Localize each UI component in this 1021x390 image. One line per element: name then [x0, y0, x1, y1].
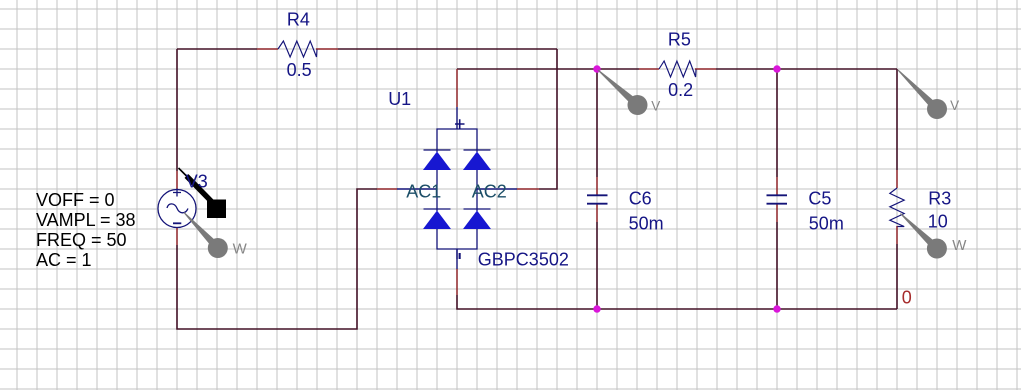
- svg-text:V: V: [950, 98, 959, 113]
- svg-text:VAMPL = 38: VAMPL = 38: [36, 210, 136, 230]
- svg-text:0.5: 0.5: [287, 60, 312, 80]
- svg-text:R3: R3: [928, 189, 951, 209]
- svg-text:0: 0: [902, 288, 912, 308]
- svg-text:AC1: AC1: [406, 181, 441, 201]
- svg-text:FREQ = 50: FREQ = 50: [36, 230, 127, 250]
- svg-text:GBPC3502: GBPC3502: [478, 249, 569, 269]
- svg-text:V: V: [651, 99, 660, 114]
- svg-text:R5: R5: [668, 30, 691, 50]
- svg-text:R4: R4: [287, 10, 310, 30]
- svg-text:U1: U1: [388, 89, 411, 109]
- svg-text:C5: C5: [808, 189, 831, 209]
- svg-text:10: 10: [928, 212, 948, 232]
- svg-text:W: W: [952, 237, 967, 254]
- svg-text:0.2: 0.2: [668, 80, 693, 100]
- svg-text:50m: 50m: [809, 213, 844, 233]
- svg-text:W: W: [233, 241, 248, 258]
- svg-text:50m: 50m: [629, 213, 664, 233]
- svg-text:VOFF = 0: VOFF = 0: [36, 190, 115, 210]
- svg-text:C6: C6: [629, 189, 652, 209]
- svg-text:AC2: AC2: [472, 181, 507, 201]
- svg-text:V3: V3: [186, 172, 208, 192]
- svg-text:AC = 1: AC = 1: [36, 250, 92, 270]
